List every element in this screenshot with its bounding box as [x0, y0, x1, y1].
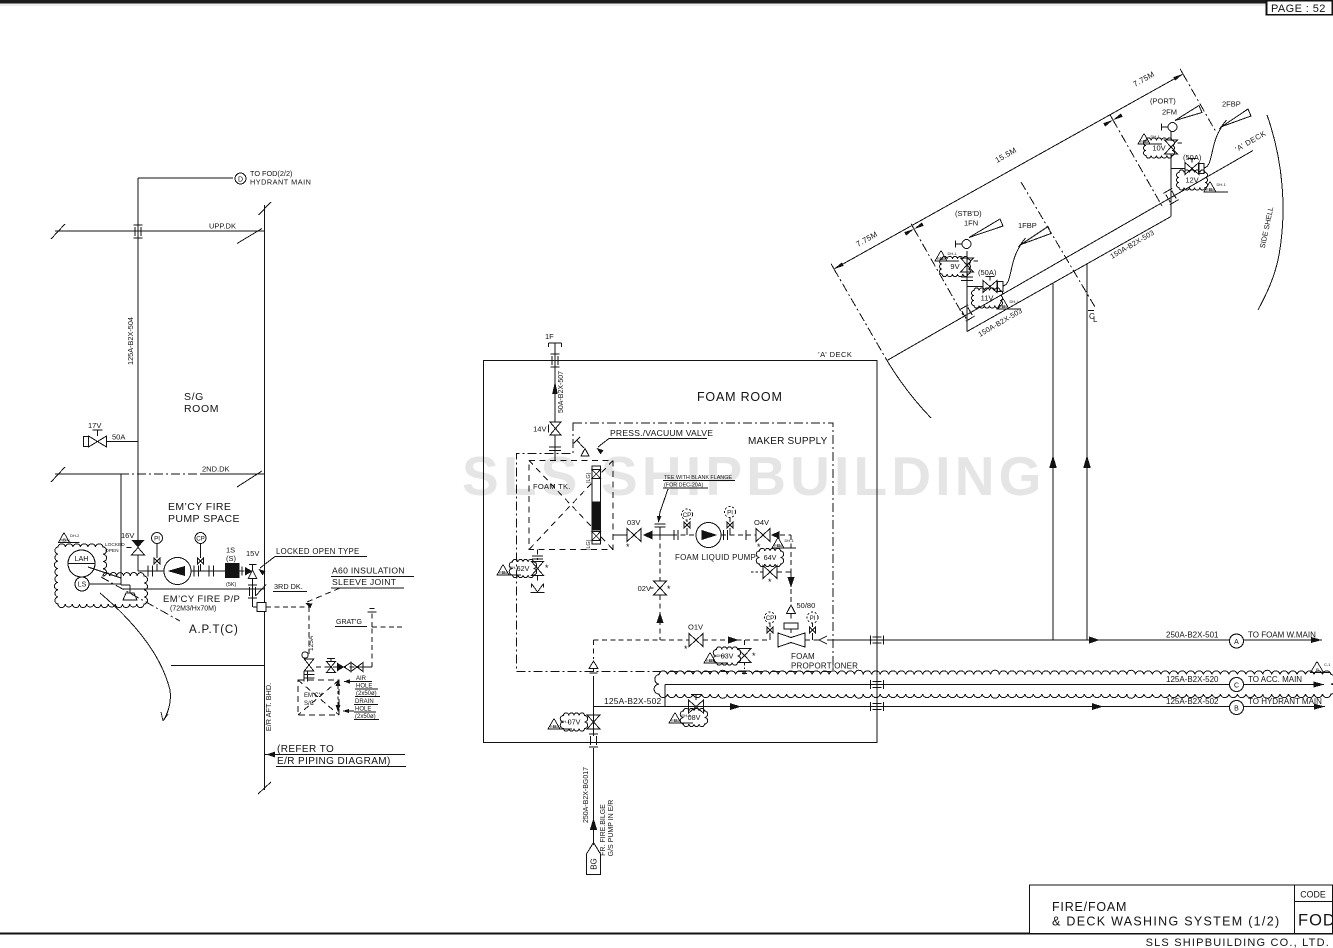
floor penetration below 07V [589, 733, 598, 735]
dimension extension lines [834, 269, 887, 361]
bilge riser through foam room floor [593, 676, 595, 736]
FOAM TK tank [529, 461, 613, 550]
svg-text:(S): (S) [226, 554, 237, 563]
svg-text:DH-1: DH-1 [510, 565, 520, 570]
svg-text:125A: 125A [308, 635, 315, 651]
svg-text:(50A): (50A) [1183, 153, 1202, 162]
valve 07V [587, 715, 600, 729]
svg-text:BG: BG [590, 858, 599, 870]
svg-text:HYDRANT MAIN: HYDRANT MAIN [250, 178, 311, 187]
deck line 3RD DK [122, 588, 265, 590]
hydrant line 125A-B2X-502 [594, 706, 1326, 708]
revision tag C-1 [1311, 662, 1330, 673]
svg-text:FR. FIRE.BILGE: FR. FIRE.BILGE [600, 804, 607, 856]
svg-text:15V: 15V [246, 549, 259, 558]
svg-text:DH-2: DH-2 [70, 533, 80, 538]
svg-text:3RD DK.: 3RD DK. [274, 582, 303, 591]
svg-text:EM’CY FIRE P/P: EM’CY FIRE P/P [163, 594, 240, 605]
svg-text:TO HYDRANT MAIN: TO HYDRANT MAIN [1248, 697, 1322, 706]
svg-text:12V: 12V [1185, 176, 1198, 185]
pump EM'CY FIRE P/P circle [164, 558, 191, 585]
A.P.T tank cloud boundary [54, 544, 147, 608]
fire hydrant 2FM monitor [1168, 123, 1177, 132]
deck pipe 150A-B2X-503 [967, 217, 1171, 332]
svg-text:S/G: S/G [184, 391, 204, 403]
svg-text:17V: 17V [88, 421, 101, 430]
svg-text:125A-B2X-520: 125A-B2X-520 [1166, 675, 1219, 684]
deck line UPP.DK [55, 230, 265, 232]
revision cloud around acc main [654, 670, 1333, 698]
svg-text:G/S PUMP IN E/R: G/S PUMP IN E/R [608, 800, 615, 857]
svg-text:02V: 02V [638, 584, 651, 593]
svg-text:50A-B2X-507: 50A-B2X-507 [558, 371, 565, 413]
connector D to FOD(2/2) [235, 173, 246, 184]
EM'CY S/C sea chest box [298, 680, 339, 715]
deck penetration stbd [959, 305, 974, 321]
svg-text:CP: CP [196, 535, 205, 542]
valve 63V drain [744, 640, 746, 648]
pump suction drop pipe and bellmouth [120, 474, 122, 585]
press/vacuum valve symbol [581, 449, 589, 457]
svg-text:CODE: CODE [1300, 890, 1326, 900]
deck penetration at UPP.DK [134, 224, 143, 226]
svg-text:PAGE : 52: PAGE : 52 [1271, 3, 1326, 15]
valve 17V [107, 441, 138, 443]
valve 08V [689, 700, 704, 713]
svg-text:CP: CP [766, 615, 775, 622]
svg-text:PUMP SPACE: PUMP SPACE [168, 513, 240, 525]
svg-text:C: C [1234, 682, 1239, 689]
drain funnel at maker boundary [593, 640, 595, 659]
suction line to foam pump [672, 534, 696, 536]
svg-text:GRAT’G: GRAT’G [336, 619, 362, 626]
svg-text:PRESS./VACUUM VALVE: PRESS./VACUUM VALVE [610, 428, 713, 438]
svg-text:1F: 1F [545, 332, 554, 341]
valve 14V [550, 422, 561, 435]
svg-text:A60 INSULATION: A60 INSULATION [332, 566, 405, 576]
valve 10V [1165, 140, 1178, 154]
svg-text:(5K): (5K) [226, 582, 237, 588]
svg-text:RIVAL: RIVAL [61, 539, 71, 543]
dimension line 7.75M / 15.5M / 7.75M [834, 74, 1183, 269]
wall penetration foam main [870, 636, 872, 645]
svg-text:A.P.T(C): A.P.T(C) [189, 624, 239, 636]
svg-text:50/80: 50/80 [797, 601, 816, 610]
wall penetration hydrant line [870, 702, 872, 711]
svg-text:(STB’D): (STB’D) [955, 209, 982, 218]
svg-text:UPP.DK: UPP.DK [209, 222, 236, 231]
foam main line 250A-B2X-501 [877, 639, 1322, 641]
air hole / drain hole marks [337, 686, 339, 705]
svg-text:B: B [1316, 667, 1319, 672]
svg-text:16V: 16V [121, 531, 134, 540]
svg-text:10V: 10V [1152, 144, 1165, 153]
svg-text:LOCKED: LOCKED [105, 542, 125, 548]
sea suction valve F [302, 652, 308, 658]
svg-text:2FBP: 2FBP [1222, 100, 1241, 109]
foam solution line with valve O1V [594, 639, 690, 641]
svg-text:11V: 11V [981, 294, 994, 303]
svg-text:LAH: LAH [75, 554, 89, 563]
svg-text:L: L [1093, 315, 1098, 324]
level gauge column [592, 466, 601, 544]
title block [1030, 885, 1333, 934]
svg-text:PI: PI [727, 509, 733, 516]
svg-text:PI: PI [810, 615, 816, 622]
stbd station riser [966, 251, 968, 332]
svg-text:9V: 9V [950, 262, 959, 271]
line proportioner to wall [805, 639, 819, 641]
hose valve 12V [1171, 168, 1185, 170]
pipe riser 125A-B2X-504 [137, 178, 139, 540]
svg-text:ROOM: ROOM [184, 403, 219, 415]
svg-text:RIVAL: RIVAL [706, 659, 716, 663]
svg-text:*: * [684, 644, 688, 654]
page number box [1267, 1, 1333, 15]
deck riser port side [1086, 264, 1088, 640]
gauge CP [195, 533, 206, 544]
wall penetration acc line [870, 680, 872, 689]
gauge CP at pump [682, 509, 693, 520]
svg-text:DH-L: DH-L [948, 251, 958, 256]
svg-text:FIRE/FOAM: FIRE/FOAM [1052, 900, 1127, 914]
pipe top run to hydrant main [138, 177, 233, 179]
hose valve 11V [967, 286, 983, 288]
svg-text:250A-B2X-BG017: 250A-B2X-BG017 [583, 767, 590, 823]
svg-text:DH-1: DH-1 [717, 653, 727, 658]
svg-text:RIVAL: RIVAL [937, 257, 947, 261]
A60 sleeve joint square and dashed pipe to sea chest [253, 606, 257, 608]
hull arc [100, 593, 170, 721]
svg-text:B: B [1234, 705, 1239, 712]
svg-text:250A-B2X-501: 250A-B2X-501 [1166, 631, 1219, 640]
centerline diagonal [101, 577, 180, 621]
svg-text:DH-1: DH-1 [785, 538, 795, 543]
check valve 15V [240, 570, 245, 572]
tank floor line [171, 665, 265, 667]
level alarm LAH [68, 550, 95, 577]
line to 64V bypass [780, 534, 791, 536]
eductor line on gratings [316, 666, 372, 668]
pipe from 15V down through 3rd deck [252, 579, 254, 608]
insulation tag at 04V [772, 538, 796, 549]
svg-text:SLS SHIPBUILDING: SLS SHIPBUILDING [462, 445, 1046, 507]
valve 9V [961, 258, 974, 272]
svg-text:EM’CY FIRE: EM’CY FIRE [168, 501, 231, 513]
vent pipe 50A-B2X-507 [554, 361, 556, 423]
svg-text:OPEN: OPEN [105, 548, 119, 554]
gauge PI at proportioner [807, 612, 818, 623]
fire hose 1FBP [1003, 243, 1022, 286]
svg-text:TO ACC. MAIN: TO ACC. MAIN [1248, 675, 1302, 684]
svg-text:FOAM TK.: FOAM TK. [533, 482, 571, 491]
svg-text:PI: PI [154, 535, 160, 542]
svg-text:PROPORTIONER: PROPORTIONER [791, 662, 858, 671]
svg-text:TO FOAM W.MAIN: TO FOAM W.MAIN [1248, 631, 1316, 640]
svg-text:2ND.DK: 2ND.DK [202, 465, 230, 474]
svg-text:(50A): (50A) [978, 268, 997, 277]
svg-text:125A-B2X-502: 125A-B2X-502 [1166, 697, 1219, 706]
svg-text:03V: 03V [627, 518, 640, 527]
svg-text:FOAM ROOM: FOAM ROOM [697, 390, 783, 404]
deck penetration port [1163, 188, 1178, 204]
valve 03V and tank outlet [613, 534, 627, 536]
foam liquid pump [696, 523, 721, 548]
flow arrow down to proportioner [790, 572, 792, 605]
svg-text:DH-1: DH-1 [561, 719, 571, 724]
valve 04V [756, 529, 770, 542]
svg-text:FOAM: FOAM [791, 652, 815, 661]
side shell curve [1258, 115, 1283, 310]
svg-text:A: A [1234, 639, 1239, 646]
svg-text:RIVAL: RIVAL [999, 305, 1009, 309]
hull curve at deck aft end [887, 361, 931, 419]
svg-text:(LG): (LG) [586, 472, 592, 483]
ship centerline CL [1021, 182, 1095, 307]
svg-text:*: * [752, 651, 756, 661]
svg-text:(LG): (LG) [586, 539, 592, 550]
svg-text:O4V: O4V [754, 518, 769, 527]
BG source flag [587, 843, 601, 875]
flange pair left of pump [147, 566, 149, 577]
svg-text:RIVAL: RIVAL [499, 571, 509, 575]
gauge PI [152, 533, 163, 544]
FOAM ROOM boundary [484, 361, 878, 743]
svg-text:RIVAL: RIVAL [671, 719, 681, 723]
fire hose 2FBP [1204, 125, 1223, 168]
svg-text:125A-B2X-504: 125A-B2X-504 [126, 317, 135, 365]
svg-text:DH-1: DH-1 [1217, 182, 1227, 187]
svg-text:FOAM LIQUID PUMP: FOAM LIQUID PUMP [675, 553, 756, 562]
foam proportioner venturi [778, 633, 805, 647]
deck riser stbd side [1052, 283, 1054, 640]
fire hydrant 1FN monitor [962, 240, 971, 249]
svg-text:’A’ DECK: ’A’ DECK [818, 350, 852, 359]
insulation tag B DH-2 [59, 533, 80, 543]
svg-text:EM’CY: EM’CY [304, 693, 323, 699]
tee with blank flange [653, 534, 673, 536]
svg-text:125A-B2X-502: 125A-B2X-502 [604, 696, 661, 706]
gauge CP at proportioner [765, 612, 776, 623]
svg-text:C-1: C-1 [1324, 662, 1331, 667]
svg-text:LOCKED OPEN TYPE: LOCKED OPEN TYPE [276, 547, 360, 556]
svg-text:DH-1: DH-1 [682, 713, 692, 718]
flanges below 9V [961, 276, 973, 278]
svg-text:SLEEVE JOINT: SLEEVE JOINT [332, 577, 397, 587]
svg-text:(72M3/Hx70M): (72M3/Hx70M) [170, 606, 216, 613]
svg-text:SLS SHIPBUILDING CO., LTD.: SLS SHIPBUILDING CO., LTD. [1146, 937, 1330, 948]
A deck sloped line [887, 151, 1253, 361]
svg-text:MAKER SUPPLY: MAKER SUPPLY [748, 436, 828, 447]
maker supply boundary [517, 423, 834, 672]
valve 02V on tank bypass [659, 535, 661, 581]
svg-text:1FN: 1FN [964, 219, 978, 228]
level switch LS [75, 577, 89, 591]
valve 64V bypass [756, 548, 783, 566]
svg-text:RIVAL: RIVAL [1206, 188, 1216, 192]
svg-text:DH-L: DH-L [1010, 299, 1020, 304]
flange pair right of pump [193, 566, 195, 577]
svg-text:FOD: FOD [1298, 912, 1333, 930]
bottom border line [0, 933, 1333, 935]
svg-text:*: * [626, 542, 630, 552]
valve 16V locked open [132, 540, 145, 548]
acc main branch 125A-B2X-520 [664, 685, 666, 707]
bulkhead S/G room right wall [264, 205, 266, 790]
svg-text:S/C: S/C [304, 701, 315, 707]
svg-text:RIVAL: RIVAL [550, 725, 560, 729]
svg-text:*: * [757, 542, 761, 552]
svg-text:*: * [545, 563, 549, 573]
svg-text:E/R AFT. BHD.: E/R AFT. BHD. [264, 683, 273, 731]
port station riser [1170, 131, 1172, 140]
valve 62V tank drain [537, 550, 539, 561]
svg-text:2FM: 2FM [1162, 108, 1177, 117]
pump suction line [138, 570, 225, 572]
svg-text:RIVAL: RIVAL [1140, 140, 1150, 144]
svg-text:1FBP: 1FBP [1018, 221, 1037, 230]
svg-text:*: * [768, 577, 772, 587]
svg-text:D: D [238, 176, 243, 183]
svg-text:RIVAL: RIVAL [774, 544, 784, 548]
svg-text:50A: 50A [112, 433, 125, 442]
svg-text:CP: CP [683, 512, 692, 519]
svg-text:O1V: O1V [688, 623, 703, 632]
svg-text:& DECK WASHING SYSTEM (1/2): & DECK WASHING SYSTEM (1/2) [1052, 915, 1280, 929]
svg-text:LS: LS [78, 582, 87, 589]
pump discharge line [721, 534, 756, 536]
deck line 2ND.DK [55, 473, 120, 475]
gratings vent [371, 627, 373, 667]
svg-text:E/R PIPING DIAGRAM): E/R PIPING DIAGRAM) [277, 756, 391, 767]
svg-text:(PORT): (PORT) [1150, 97, 1176, 106]
top window bar [0, 0, 1333, 4]
svg-text:DH-1: DH-1 [1151, 134, 1161, 139]
gauge PI at pump [725, 507, 736, 518]
svg-text:(REFER TO: (REFER TO [277, 744, 334, 755]
flow arrow and label on bilge riser [590, 818, 597, 830]
svg-text:*: * [667, 584, 671, 594]
svg-text:64V: 64V [764, 553, 777, 562]
svg-text:14V: 14V [533, 425, 546, 434]
strainer 1S [225, 563, 240, 578]
